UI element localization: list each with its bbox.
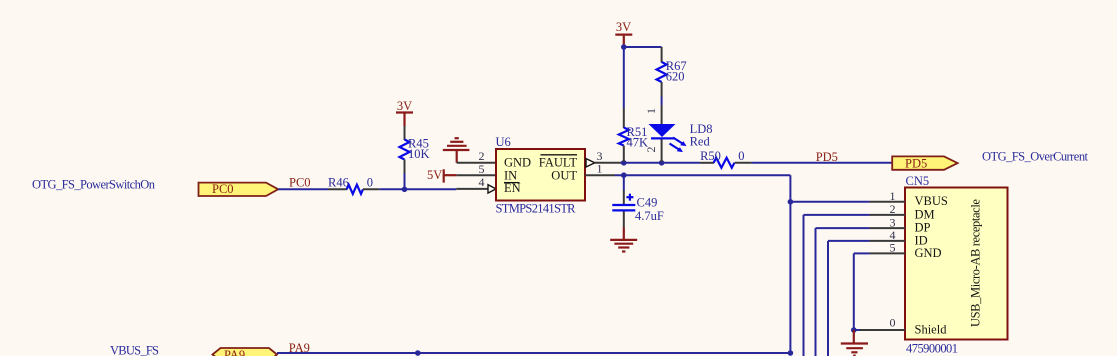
svg-text:1: 1	[644, 108, 658, 114]
pin 5 IN of U6	[457, 162, 496, 176]
LED LD8 Red	[644, 105, 713, 162]
pin 4 ID of CN5	[870, 228, 906, 242]
wire GND to CN5	[854, 253, 870, 330]
resistor R45 10K	[400, 126, 430, 173]
node OUT/VBUS junction	[788, 199, 794, 205]
wire VBUS to CN5	[790, 201, 869, 203]
port PA9	[213, 348, 278, 356]
pin 3 FAULT of U6 (output triangle)	[586, 149, 621, 167]
svg-text:U6: U6	[496, 135, 511, 149]
connector CN5 475900001	[905, 174, 1008, 356]
svg-text:PC0: PC0	[289, 175, 311, 189]
svg-text:2: 2	[644, 147, 658, 153]
node bottom wire junction	[415, 350, 421, 356]
svg-text:0: 0	[738, 149, 744, 163]
pin 5 GND of CN5	[870, 241, 906, 255]
svg-text:OTG_FS_PowerSwitchOn: OTG_FS_PowerSwitchOn	[32, 178, 156, 192]
wire 3V down to R51	[623, 47, 625, 108]
svg-text:5: 5	[479, 162, 485, 176]
resistor R46 0	[328, 175, 379, 194]
pin 1 OUT of U6	[585, 161, 615, 175]
capacitor C49 4.7uF	[612, 175, 664, 227]
wire R50 to PD5 port	[752, 162, 893, 164]
node GND/Shield junction	[851, 327, 857, 333]
power 3V (LED branch)	[615, 20, 632, 47]
node FAULT/R51 junction	[621, 160, 627, 166]
pin 1 VBUS of CN5	[870, 189, 906, 203]
svg-text:Shield: Shield	[915, 323, 948, 337]
wire FAULT net to R50	[621, 162, 701, 164]
wire ID to CN5	[828, 241, 870, 356]
svg-text:DM: DM	[915, 207, 935, 221]
ground (U6 GND pin, bars-up style)	[443, 138, 470, 163]
node 3V junction	[621, 44, 627, 50]
port PD5	[892, 156, 957, 170]
svg-text:ID: ID	[915, 233, 928, 247]
wire R67 to LED	[661, 97, 663, 106]
ground (below C49)	[610, 228, 637, 252]
svg-text:R50: R50	[700, 149, 721, 163]
svg-text:VBUS: VBUS	[915, 194, 948, 208]
wire OUT vertical down	[789, 175, 791, 353]
svg-text:4.7uF: 4.7uF	[635, 209, 664, 223]
svg-text:620: 620	[666, 70, 685, 84]
svg-text:3V: 3V	[397, 99, 412, 113]
svg-text:R46: R46	[328, 175, 349, 189]
pin 0 Shield of CN5	[860, 316, 905, 330]
node OUT/bottom wire junction	[788, 350, 794, 356]
wire VBUS_FS bottom	[277, 352, 790, 354]
resistor R50 0	[700, 149, 752, 168]
pin 2 DM of CN5	[870, 202, 906, 216]
svg-text:5V: 5V	[427, 168, 442, 182]
svg-text:475900001: 475900001	[906, 342, 958, 356]
svg-text:DP: DP	[915, 220, 931, 234]
wire DM to CN5	[804, 215, 870, 356]
pin 2 GND of U6	[457, 149, 496, 163]
svg-text:FAULT: FAULT	[539, 156, 578, 170]
svg-text:5: 5	[890, 241, 896, 255]
pin 4 EN of U6 (input triangle)	[456, 175, 496, 193]
resistor R51 47K	[619, 108, 648, 162]
node FAULT/LED junction	[659, 160, 665, 166]
svg-text:PC0: PC0	[212, 182, 234, 196]
svg-text:CN5: CN5	[906, 174, 930, 188]
wire OUT net to vertical	[615, 174, 791, 176]
ground (below CN5 shield)	[841, 330, 868, 356]
power 5V	[427, 168, 457, 182]
svg-text:PD5: PD5	[905, 156, 927, 170]
svg-text:PD5: PD5	[816, 150, 838, 164]
svg-text:GND: GND	[504, 156, 531, 170]
svg-text:3V: 3V	[616, 20, 631, 34]
node OUT/C49 junction	[621, 172, 627, 178]
svg-text:USB_Micro-AB receptacle: USB_Micro-AB receptacle	[969, 199, 983, 327]
svg-text:1: 1	[890, 189, 896, 203]
svg-text:PA9: PA9	[224, 348, 245, 356]
svg-text:Red: Red	[690, 135, 711, 149]
svg-text:OUT: OUT	[551, 169, 577, 183]
svg-text:2: 2	[890, 202, 896, 216]
svg-text:OTG_FS_OverCurrent: OTG_FS_OverCurrent	[982, 149, 1089, 163]
svg-text:4: 4	[479, 175, 485, 189]
power 3V (R45 branch)	[396, 99, 413, 126]
wire DP to CN5	[816, 228, 870, 356]
svg-text:STMPS2141STR: STMPS2141STR	[496, 201, 577, 215]
resistor R67 620	[657, 47, 687, 97]
pin 3 DP of CN5	[870, 215, 906, 229]
svg-text:1: 1	[597, 161, 603, 175]
svg-text:C49: C49	[637, 195, 658, 209]
svg-text:10K: 10K	[408, 147, 430, 161]
wire R46 to EN pin	[379, 188, 456, 190]
svg-text:VBUS_FS: VBUS_FS	[110, 344, 159, 356]
IC U6 STMPS2141STR	[496, 135, 586, 215]
wire 3V across to R67 branch	[624, 46, 662, 48]
svg-text:GND: GND	[915, 246, 942, 260]
wire R45 to junction	[404, 173, 406, 189]
port PC0	[199, 182, 279, 196]
wire PC0 port to R46	[278, 188, 328, 190]
node junction R45/R46/EN	[402, 187, 408, 193]
svg-text:0: 0	[367, 175, 373, 189]
svg-text:0: 0	[890, 316, 896, 330]
